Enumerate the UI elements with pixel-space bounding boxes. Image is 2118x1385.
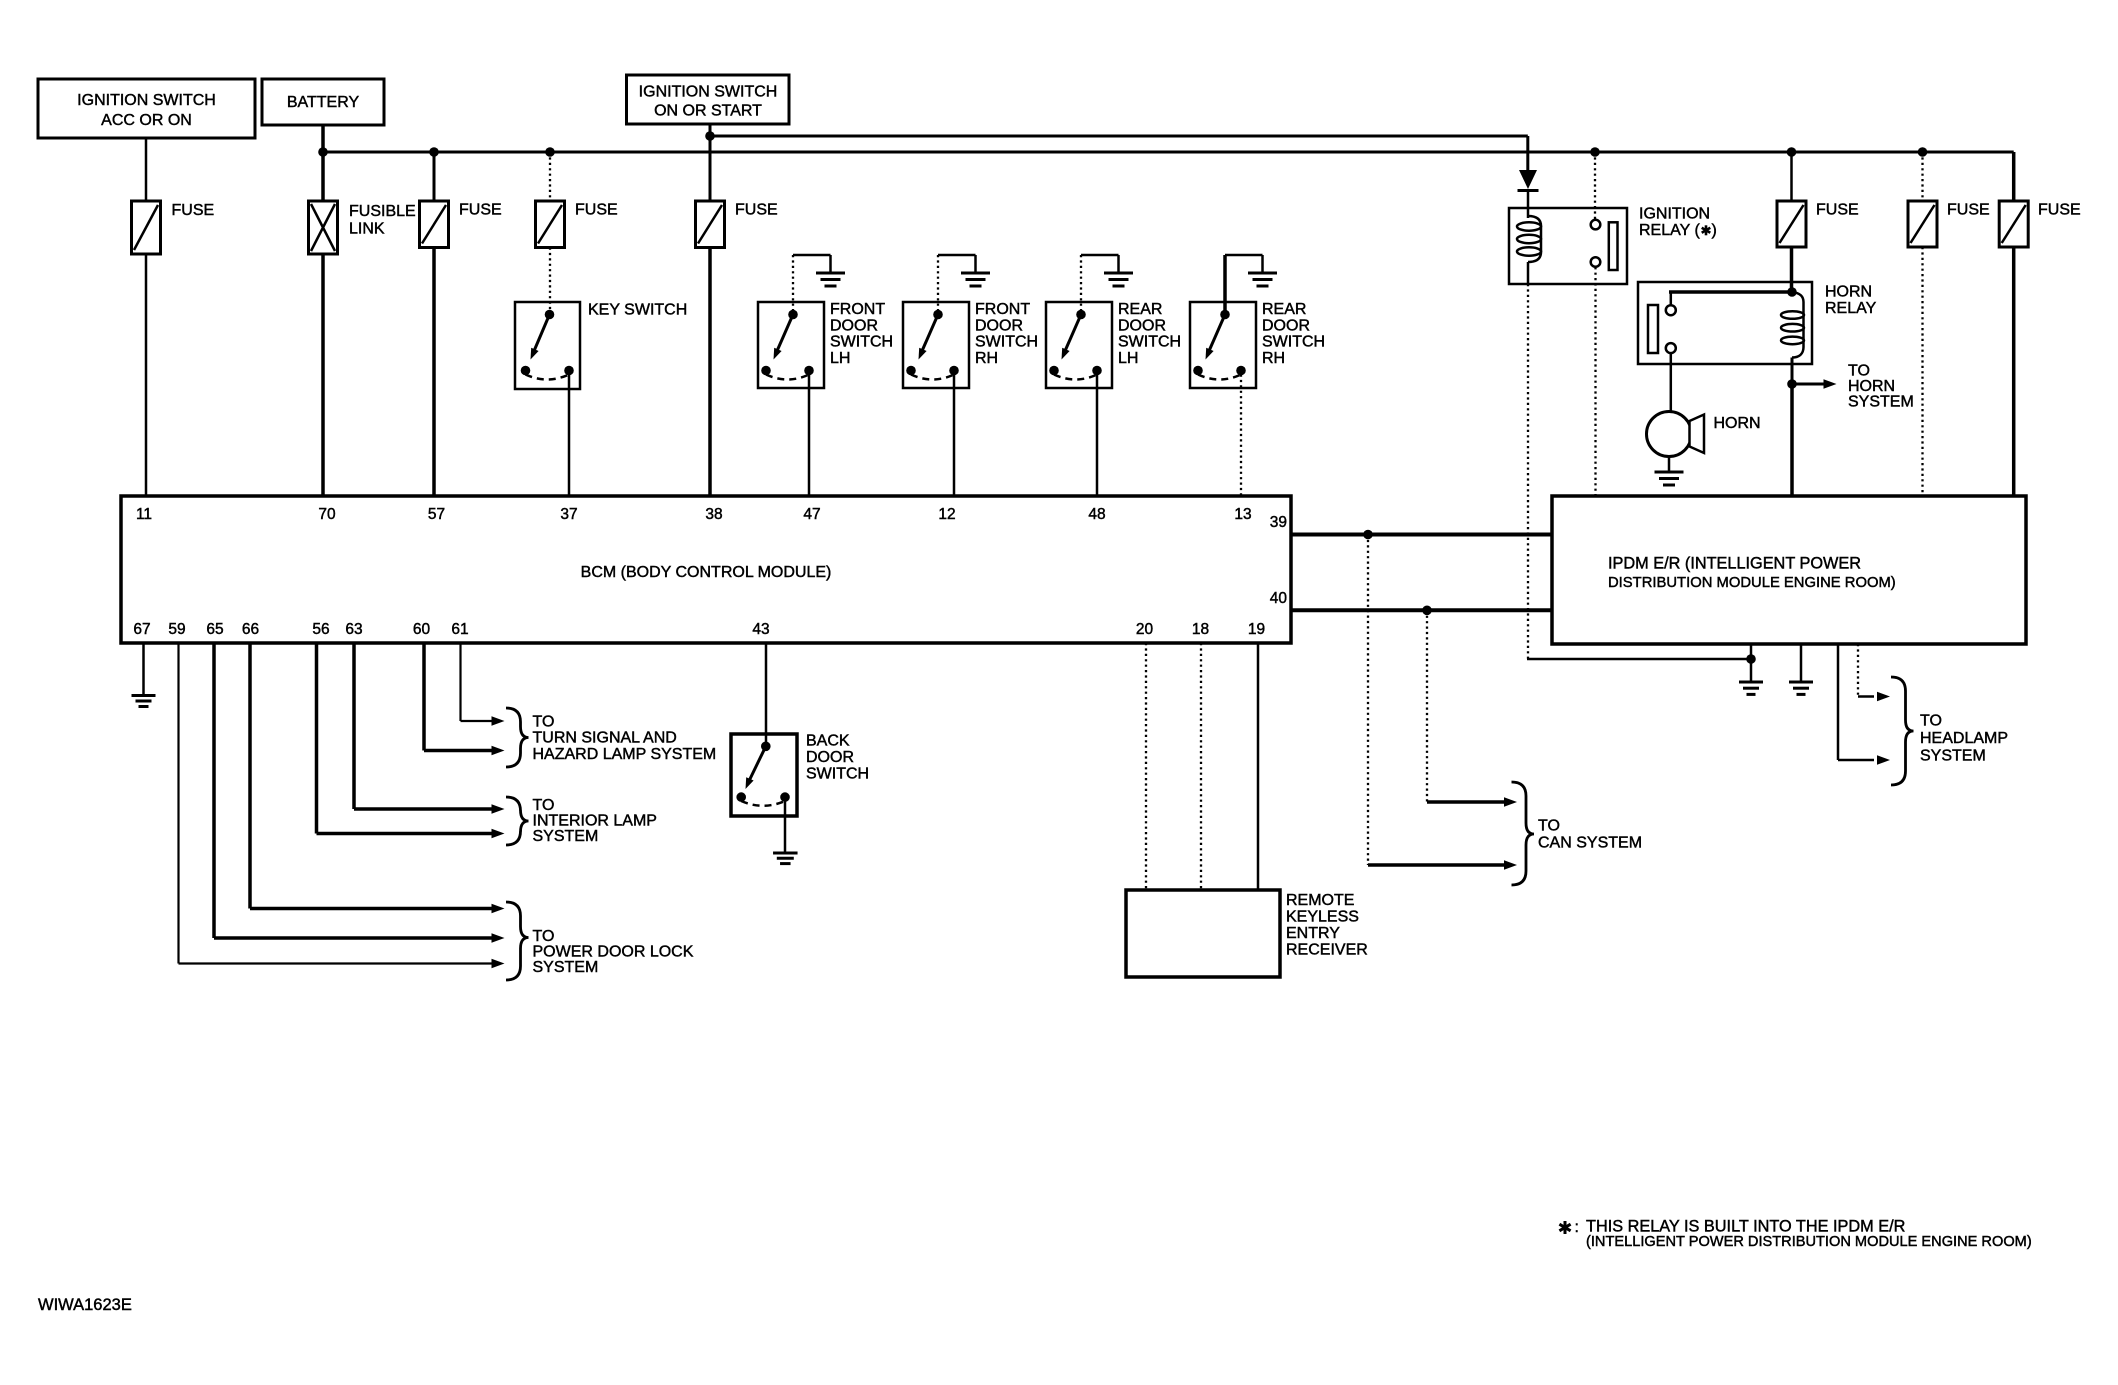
svg-text:47: 47 (803, 506, 820, 523)
wire back door switch to ground (784, 801, 787, 853)
svg-text:FRONT: FRONT (975, 301, 1030, 318)
svg-text:KEY SWITCH: KEY SWITCH (588, 302, 687, 319)
label to power door lock system (533, 928, 694, 976)
power source box IGNITION SWITCH ON OR START (627, 75, 790, 124)
wire battery bus horizontal (323, 152, 2014, 201)
fuse F4 (pin 38 feed) (696, 201, 778, 248)
wire BCM pin 61 (turn signal) (461, 643, 505, 726)
svg-text:38: 38 (705, 506, 722, 523)
svg-text:60: 60 (413, 621, 431, 638)
svg-text:(INTELLIGENT POWER DISTRIBUTIO: (INTELLIGENT POWER DISTRIBUTION MODULE E… (1586, 1234, 2032, 1250)
wire battery to fusible link and BCM pin 70 (321, 152, 325, 496)
wire BCM pin 56 (interior lamp) (317, 643, 505, 838)
wire CAN L to arrow (dotted) (1368, 535, 1517, 870)
front door switch LH (758, 255, 831, 388)
wire IPDM ground 2 (1800, 644, 1803, 682)
ignition relay contact pins (1591, 220, 1618, 270)
IPDM E/R box (1552, 496, 2026, 644)
svg-text:63: 63 (345, 621, 362, 638)
svg-text:SYSTEM: SYSTEM (533, 828, 599, 845)
ground BCM pin 67 (132, 696, 156, 707)
svg-text:67: 67 (133, 621, 150, 638)
svg-text:SWITCH: SWITCH (1118, 334, 1181, 351)
svg-text:RH: RH (1262, 350, 1285, 367)
wire CAN H to arrow (dotted) (1427, 610, 1517, 807)
svg-text:SWITCH: SWITCH (806, 765, 869, 782)
label horn (1714, 415, 1761, 432)
wire fuse F5 to horn relay coil (1790, 152, 1793, 292)
BCM right pin labels 39 40 (1270, 514, 1288, 607)
svg-text:BACK: BACK (806, 733, 850, 750)
power source box BATTERY (262, 79, 384, 125)
fuse F5 (horn relay feed) (1777, 201, 1859, 247)
svg-text:LH: LH (830, 350, 850, 367)
svg-text:REMOTE: REMOTE (1286, 892, 1354, 909)
svg-text:HORN: HORN (1848, 378, 1895, 395)
arrow to horn system (1792, 379, 1837, 389)
fuse F6 (IPDM feed) (1908, 201, 1990, 247)
label rear door switch LH (1118, 301, 1181, 367)
svg-text:REAR: REAR (1262, 301, 1306, 318)
brace interior lamp (506, 797, 529, 845)
label to turn signal and hazard lamp system (533, 714, 717, 764)
wire IPDM to headlamp A (1838, 644, 1890, 765)
BCM bottom pin labels (133, 621, 1265, 638)
label remote keyless entry receiver (1286, 892, 1368, 959)
svg-text:IPDM E/R (INTELLIGENT POWER: IPDM E/R (INTELLIGENT POWER (1608, 555, 1861, 573)
back door switch (731, 734, 797, 816)
wire BCM pin 19 to receiver (1257, 643, 1260, 890)
svg-text:BCM (BODY CONTROL MODULE): BCM (BODY CONTROL MODULE) (581, 564, 832, 581)
svg-text:HORN: HORN (1714, 415, 1761, 432)
label ignition relay (1639, 206, 1717, 240)
svg-text:FUSE: FUSE (1816, 202, 1859, 219)
junction node IPDM ground (1746, 654, 1756, 664)
svg-text:DOOR: DOOR (830, 317, 878, 334)
svg-text:SYSTEM: SYSTEM (533, 959, 599, 976)
svg-text:12: 12 (938, 506, 955, 523)
wire bus to ignition relay contact (dotted) (1594, 152, 1596, 219)
wire front door switch LH to BCM (808, 375, 811, 497)
label front door switch RH (975, 301, 1038, 367)
ground front door switch LH (816, 273, 845, 286)
fuse F1 (pin 11 feed) (132, 201, 215, 254)
svg-text:ON OR START: ON OR START (654, 103, 762, 120)
ground front door switch RH (961, 273, 990, 286)
wire BCM pin 20 to receiver (dotted) (1145, 643, 1147, 890)
ground horn (1655, 472, 1684, 485)
svg-text:REAR: REAR (1118, 301, 1162, 318)
svg-text:TO: TO (1848, 363, 1870, 380)
svg-text:INTERIOR LAMP: INTERIOR LAMP (533, 813, 657, 830)
ignition relay coil (1517, 216, 1541, 284)
svg-text:DOOR: DOOR (806, 749, 854, 766)
horn relay coil (1781, 292, 1804, 384)
wire horn to ground (1668, 457, 1671, 473)
key switch (515, 302, 580, 389)
ground rear door switch RH (1248, 273, 1277, 286)
svg-text:37: 37 (560, 506, 577, 523)
document id (38, 1296, 132, 1314)
fusible link FL (309, 201, 416, 254)
label front door switch LH (830, 301, 893, 367)
wire rear door switch LH to BCM (1096, 375, 1099, 497)
BCM (Body Control Module) box (121, 496, 1291, 643)
svg-text:): ) (1712, 222, 1717, 239)
wire key switch to BCM pin 37 (568, 374, 571, 496)
ground IPDM 1 (1739, 682, 1763, 694)
svg-text:ACC OR ON: ACC OR ON (101, 112, 192, 129)
wire BCM pin 60 (turn signal) (424, 643, 505, 755)
label horn relay (1825, 284, 1877, 318)
svg-text:DOOR: DOOR (975, 317, 1023, 334)
rear door switch LH (1046, 255, 1119, 388)
wire fuse F3 to key switch (dotted) (549, 152, 551, 310)
wire front door switch RH to BCM (953, 375, 956, 497)
svg-text:THIS RELAY IS BUILT INTO THE I: THIS RELAY IS BUILT INTO THE IPDM E/R (1586, 1218, 1905, 1236)
svg-text:66: 66 (242, 621, 259, 638)
svg-text:HAZARD LAMP SYSTEM: HAZARD LAMP SYSTEM (533, 746, 717, 763)
svg-text:FUSE: FUSE (575, 202, 618, 219)
svg-text::: : (1575, 1219, 1579, 1236)
svg-text:RH: RH (975, 350, 998, 367)
wire BCM pin 66 (power door lock) (250, 643, 505, 913)
wire IPDM to headlamp B (dotted) (1858, 644, 1890, 701)
svg-text:KEYLESS: KEYLESS (1286, 909, 1359, 926)
fuse F7 (IPDM feed right) (1999, 201, 2080, 247)
svg-text:11: 11 (136, 506, 152, 523)
svg-text:DOOR: DOOR (1262, 317, 1310, 334)
svg-text:SWITCH: SWITCH (830, 334, 893, 351)
svg-text:HEADLAMP: HEADLAMP (1920, 730, 2008, 747)
wire from acc box to fuse (145, 139, 148, 202)
svg-text:TO: TO (1920, 713, 1942, 730)
svg-text:SYSTEM: SYSTEM (1848, 394, 1914, 411)
junction node ignition relay feed (1590, 147, 1600, 157)
svg-text:39: 39 (1270, 514, 1287, 531)
wire fuse F1 to BCM pin 11 (145, 254, 148, 496)
svg-text:43: 43 (752, 621, 769, 638)
wire BCM pin 63 (interior lamp) (354, 643, 505, 814)
label to interior lamp system (533, 797, 657, 845)
wire ignition relay contact to IPDM (dotted) (1594, 267, 1596, 496)
svg-text:TO: TO (533, 797, 555, 814)
svg-text:TURN SIGNAL AND: TURN SIGNAL AND (533, 730, 677, 747)
svg-text:20: 20 (1136, 621, 1154, 638)
svg-text:DISTRIBUTION MODULE ENGINE ROO: DISTRIBUTION MODULE ENGINE ROOM) (1608, 575, 1896, 591)
wire BCM pin 18 to receiver (dotted) (1200, 643, 1202, 890)
svg-text:IGNITION SWITCH: IGNITION SWITCH (77, 92, 216, 109)
svg-text:SWITCH: SWITCH (1262, 334, 1325, 351)
label back door switch (806, 733, 869, 783)
wire horn relay to IPDM (1790, 384, 1794, 496)
brace turn signal (506, 708, 529, 767)
note text (1586, 1218, 2032, 1251)
junction node fuse 37 feed (545, 147, 555, 157)
junction node horn fuse feed (1787, 147, 1797, 157)
ground IPDM 2 (1789, 682, 1813, 694)
junction node battery (318, 147, 328, 157)
svg-text:65: 65 (206, 621, 223, 638)
svg-text:18: 18 (1192, 621, 1209, 638)
horn relay contact pins (1648, 305, 1676, 353)
wire BCM pin 65 (power door lock) (214, 643, 505, 943)
svg-text:57: 57 (428, 506, 445, 523)
svg-text:13: 13 (1234, 506, 1251, 523)
svg-text:TO: TO (533, 714, 555, 731)
svg-text:59: 59 (168, 621, 185, 638)
svg-text:IGNITION SWITCH: IGNITION SWITCH (639, 84, 778, 101)
wire BCM pin 67 to ground (142, 643, 145, 696)
junction node fuse feed right (1918, 147, 1928, 157)
svg-text:61: 61 (451, 621, 468, 638)
rear door switch RH (1190, 255, 1263, 388)
wire BCM pin 43 to back door switch (765, 643, 768, 746)
svg-text:CAN SYSTEM: CAN SYSTEM (1538, 835, 1642, 852)
horn relay internal wire (1669, 292, 1792, 305)
junction node CAN H (1422, 606, 1432, 616)
fuse F3 (key switch feed) (536, 201, 618, 248)
svg-text:HORN: HORN (1825, 284, 1872, 301)
svg-text:TO: TO (533, 928, 555, 945)
brace to headlamp system (1891, 677, 1914, 785)
wire ignition on/start bus horizontal (710, 136, 1528, 170)
label rear door switch RH (1262, 301, 1325, 367)
svg-text:IGNITION: IGNITION (1639, 206, 1710, 223)
wire IPDM ground 1 (1750, 644, 1753, 682)
wire fuse F4 to BCM pin 38 (708, 248, 712, 497)
junction node horn relay coil top (1787, 287, 1797, 297)
svg-text:70: 70 (318, 506, 336, 523)
label to horn system (1848, 363, 1914, 411)
svg-text:FUSE: FUSE (735, 202, 778, 219)
svg-text:BATTERY: BATTERY (287, 94, 360, 111)
junction node CAN L (1363, 530, 1373, 540)
front door switch RH (903, 255, 976, 388)
label IPDM E/R (1608, 555, 1896, 592)
svg-text:RELAY: RELAY (1825, 300, 1877, 317)
power source box IGNITION SWITCH ACC OR ON (38, 79, 255, 138)
fuse F2 (pin 57 feed) (420, 201, 502, 248)
svg-text:FUSE: FUSE (459, 202, 502, 219)
svg-text:FUSE: FUSE (172, 202, 215, 219)
wire ignition relay coil to ground (dotted) (1527, 284, 1751, 659)
note asterisk (1559, 1219, 1579, 1236)
label to CAN system (1538, 818, 1642, 852)
svg-text:FRONT: FRONT (830, 301, 885, 318)
wire from ignition on/start box (709, 124, 712, 201)
svg-text:LINK: LINK (349, 221, 385, 238)
brace to CAN system (1512, 782, 1535, 885)
junction node to horn system (1787, 379, 1797, 389)
wire fuse F7 to IPDM (2012, 247, 2016, 496)
wire fuse F2 to BCM pin 57 (433, 152, 436, 496)
brace power door lock (506, 902, 529, 980)
svg-text:TO: TO (1538, 818, 1560, 835)
wire from battery box (321, 125, 325, 152)
horn (1647, 412, 1705, 457)
svg-text:FUSIBLE: FUSIBLE (349, 203, 416, 220)
svg-text:19: 19 (1248, 621, 1265, 638)
wire fuse F6 to IPDM (dotted) (1921, 152, 1923, 496)
ground back door switch (773, 853, 798, 864)
BCM top pin labels (136, 506, 1252, 523)
junction node ignition on/start (705, 131, 715, 141)
svg-text:48: 48 (1088, 506, 1105, 523)
wire BCM pin 59 (power door lock) (179, 643, 505, 968)
wire BCM pin 40 to IPDM (1291, 608, 1552, 612)
remote keyless entry receiver box (1126, 890, 1280, 977)
svg-text:ENTRY: ENTRY (1286, 925, 1340, 942)
label key switch (588, 302, 687, 319)
svg-text:SYSTEM: SYSTEM (1920, 748, 1986, 765)
wire rear door switch RH to BCM (1240, 375, 1242, 497)
ignition relay box (1509, 208, 1627, 284)
diode D1 (1518, 170, 1539, 218)
svg-text:FUSE: FUSE (2038, 202, 2081, 219)
svg-text:SWITCH: SWITCH (975, 334, 1038, 351)
wire BCM pin 39 to IPDM (1291, 533, 1552, 537)
ground rear door switch LH (1104, 273, 1133, 286)
svg-text:WIWA1623E: WIWA1623E (38, 1296, 132, 1314)
label to headlamp system (1920, 713, 2008, 765)
svg-text:DOOR: DOOR (1118, 317, 1166, 334)
wire horn relay contact to horn (1670, 353, 1673, 411)
svg-text:40: 40 (1270, 590, 1288, 607)
svg-text:POWER DOOR LOCK: POWER DOOR LOCK (533, 944, 694, 961)
svg-text:RELAY (: RELAY ( (1639, 222, 1700, 239)
svg-text:FUSE: FUSE (1947, 202, 1990, 219)
svg-text:56: 56 (312, 621, 329, 638)
svg-text:RECEIVER: RECEIVER (1286, 942, 1368, 959)
svg-text:LH: LH (1118, 350, 1138, 367)
horn relay box (1638, 282, 1812, 364)
junction node fuse 57 feed (429, 147, 439, 157)
